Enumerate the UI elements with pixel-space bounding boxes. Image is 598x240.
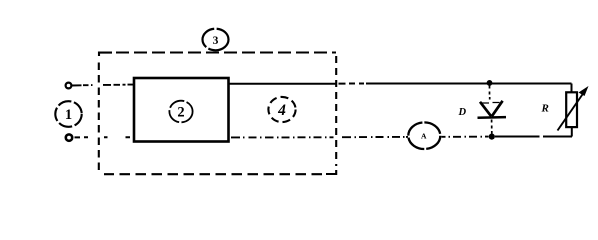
node label 3 (circled, above box) [203, 29, 229, 51]
wire: upper chain line terminal to box 2 [83, 84, 134, 87]
wire: lead down into resistor top [571, 84, 573, 93]
junction node (top, at diode) [487, 80, 493, 86]
diode D [478, 86, 507, 134]
wire: bottom junction to resistor corner [495, 136, 572, 138]
svg-text:4: 4 [277, 102, 286, 119]
svg-text:1: 1 [65, 107, 72, 123]
enclosure box 3 (dashed screen) [99, 53, 336, 175]
terminal T1 (upper input) [66, 83, 72, 89]
wire: lead up into resistor bottom [571, 127, 573, 137]
resistor R (adjustable, box symbol with arrow) [558, 86, 589, 131]
svg-text:R: R [541, 102, 549, 114]
wire: upper input stub (solid) [72, 84, 82, 86]
wire: bottom chain from box 2 to ammeter [231, 136, 334, 138]
svg-text:D: D [458, 107, 467, 118]
wire: chain from ammeter to bottom junction [442, 136, 489, 138]
node label 1 (circled 1) [55, 101, 81, 127]
ammeter A (circled A) [408, 122, 440, 149]
device box 2 (solid rectangle) [134, 78, 229, 142]
wire: lower chain line terminal to box 2 [75, 136, 131, 138]
node label 2 (circled 2) [169, 101, 192, 123]
svg-text:3: 3 [213, 35, 219, 47]
svg-text:2: 2 [177, 105, 184, 121]
wire: top bus from box 2 to resistor corner [229, 83, 337, 85]
terminal T2 (lower input) [66, 134, 72, 140]
junction node (bottom, at diode) [489, 134, 495, 140]
svg-text:A: A [421, 132, 427, 141]
node label 4 (circled 4, dashed) [268, 97, 295, 122]
